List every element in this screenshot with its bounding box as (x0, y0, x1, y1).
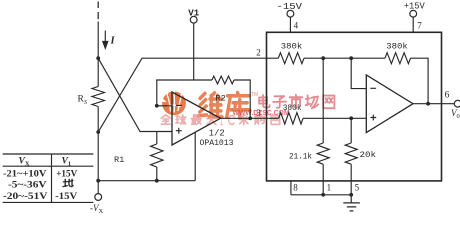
pin 7 stub (412, 17, 414, 32)
feedback wire to output (411, 58, 429, 103)
wire R2 to node 3 (234, 80, 250, 118)
svg-text:+15V: +15V (56, 168, 77, 179)
wire RS column (node A to node B) (97, 58, 99, 86)
svg-text:-20~-51V: -20~-51V (3, 191, 48, 202)
svg-text:R2: R2 (216, 94, 226, 104)
svg-text:R1: R1 (114, 155, 124, 165)
wire top mid (304, 57, 385, 59)
svg-text:20k: 20k (360, 150, 377, 160)
current arrow I (104, 31, 106, 43)
pin 8 stub (290, 181, 292, 195)
watermark text 电子市场网 (259, 95, 270, 107)
svg-text:7: 7 (417, 20, 422, 30)
divider branch wire (322, 58, 324, 143)
svg-text:2: 2 (256, 47, 261, 57)
op2 plus sign (370, 115, 376, 121)
ground bus (291, 194, 351, 196)
op1 plus sign (176, 128, 182, 134)
wire input top (97, 22, 99, 59)
crossover wire B: node B to box pin 2 (98, 58, 278, 132)
crossover wire A: node A to opamp + input (98, 58, 172, 131)
svg-text:4: 4 (294, 20, 299, 30)
terminal +15V (410, 10, 417, 17)
svg-text:380k: 380k (386, 41, 408, 51)
bottom rail: node C to op1 V- pin (98, 180, 195, 182)
svg-text:21.1k: 21.1k (289, 151, 312, 161)
terminal V0 (454, 100, 460, 107)
IC box outline (267, 32, 442, 181)
op2 non-inverting wire (303, 117, 366, 119)
pin 4 stub (289, 17, 291, 32)
resistor RS (92, 87, 104, 107)
terminal -VX (97, 181, 99, 194)
terminal V1 (190, 16, 197, 23)
svg-text:TM: TM (251, 92, 258, 98)
wire node B to node C (97, 132, 99, 181)
dashed input lead (97, 2, 99, 20)
watermark logo circle (158, 91, 186, 116)
svg-text:-5~-36V: -5~-36V (8, 180, 47, 191)
svg-text:380k: 380k (281, 41, 303, 51)
terminal V1 stub (193, 23, 195, 80)
table grid lines (3, 154, 94, 202)
op1 output wire to box pin 3 (221, 117, 279, 119)
op-amp U1 triangle (172, 92, 221, 145)
resistor 380k third (279, 113, 303, 124)
svg-text:V1: V1 (188, 8, 199, 18)
svg-text:8: 8 (293, 183, 298, 193)
op1 minus sign (176, 104, 182, 106)
watermark slogan 全球最大IC采购网 (161, 115, 170, 124)
svg-text:OPA1013: OPA1013 (200, 138, 234, 148)
resistor 380k first (278, 53, 304, 64)
op2 minus sign (370, 87, 376, 89)
svg-text:-15V: -15V (277, 1, 303, 12)
watermark brand char 库 (227, 93, 250, 118)
terminal -15V (287, 10, 294, 17)
svg-text:3: 3 (256, 108, 261, 118)
svg-text:6: 6 (445, 91, 450, 101)
svg-text:+15V: +15V (404, 1, 425, 12)
watermark brand char 维 (199, 93, 222, 117)
op1 inverting node wire (157, 80, 212, 106)
resistor R1 (156, 132, 158, 145)
op2 inverting input wire (351, 58, 366, 88)
resistor 20k (350, 118, 352, 143)
svg-text:-15V: -15V (55, 191, 77, 202)
svg-text:-21~+10V: -21~+10V (3, 168, 47, 179)
op1 V- supply pin wire (194, 133, 196, 181)
resistor 21.1k (317, 143, 329, 164)
ground symbol (350, 195, 352, 203)
op-amp U2 triangle (366, 75, 413, 133)
svg-text:5: 5 (355, 183, 360, 193)
resistor 380k second (385, 53, 411, 64)
op2 output wire to terminal V0 (413, 103, 454, 105)
svg-text:380k: 380k (283, 103, 302, 113)
resistor R2 (212, 76, 234, 84)
svg-text:1: 1 (327, 183, 332, 193)
